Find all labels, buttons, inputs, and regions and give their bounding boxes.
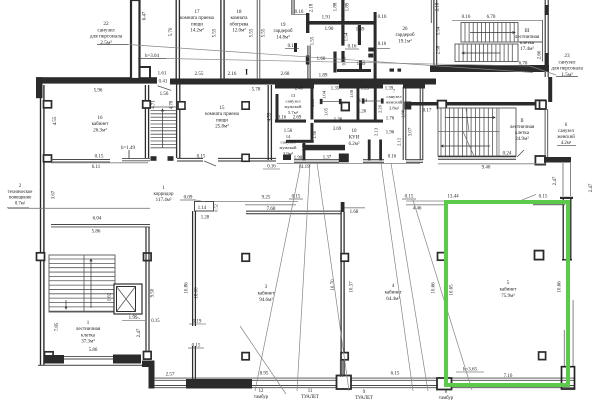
svg-text:0.15: 0.15 [95,155,104,160]
stairwell III right wall [545,0,548,77]
stairwell III right wall pier top [545,5,549,15]
wall cluster2 vertical x381 lower [379,140,382,161]
right wing wall below stairIII pier [548,77,552,102]
svg-text:техническое: техническое [8,190,33,195]
svg-text:помещение: помещение [9,196,32,201]
svg-text:3.8м²: 3.8м² [389,105,400,110]
dim 0.15 corridor b underline [402,198,416,200]
svg-text:6.70: 6.70 [519,62,528,67]
room5 right wall thin mid [564,300,573,367]
wall cluster2 vertical x375 stub [374,87,377,120]
svg-text:4.71: 4.71 [152,100,157,109]
svg-text:санузел: санузел [285,99,301,104]
wall outer bottom-left face line [38,364,152,366]
svg-text:5.7м²: 5.7м² [288,110,299,115]
svg-text:14: 14 [286,134,291,139]
room3 top step notch box [195,202,214,212]
column room3 row4 a [45,352,54,360]
door tick room15 top [158,86,172,91]
wall vertical left of room 26 [434,0,437,65]
svg-text:1.08: 1.08 [349,89,354,98]
door dumbbell room13 [321,101,341,103]
room 2 label underline [7,207,29,209]
wall mid band bottom room16 [51,160,110,162]
svg-text:1.96: 1.96 [386,131,395,136]
svg-text:0.7м²: 0.7м² [15,200,26,206]
wall cluster2 bottom y161 c [406,160,423,162]
svg-text:1.5м²: 1.5м² [561,72,573,78]
dim 0.09 underline [180,199,196,201]
stairs II arrow upper [445,116,495,118]
svg-text:4.46: 4.46 [413,207,422,212]
column room15 b [242,102,249,109]
right wing window band x563-570 upper [563,163,571,196]
svg-text:2.47: 2.47 [589,183,594,192]
svg-text:6.47: 6.47 [143,11,148,20]
leader to room 8 label b [391,163,428,391]
svg-text:2.5м²: 2.5м² [100,40,112,46]
svg-text:12: 12 [259,389,264,394]
left outer wall [41,85,44,366]
right wing wall x546 window band [545,109,548,157]
svg-text:клетка: клетка [520,41,535,46]
svg-text:h=1.49: h=1.49 [121,146,136,151]
svg-text:кабинет: кабинет [258,291,276,296]
svg-text:1.14: 1.14 [198,206,207,211]
svg-text:лестничная: лестничная [76,327,101,332]
svg-text:4.55: 4.55 [53,116,58,125]
bottom wall thick segment [186,379,252,389]
wall vertical between room 17 and 18 [176,0,179,79]
svg-text:5.55: 5.55 [213,28,218,37]
svg-text:комната приема: комната приема [180,16,214,21]
svg-text:санузел: санузел [559,59,576,65]
svg-text:11: 11 [308,389,313,394]
column room15 a [178,102,185,109]
door marker black square pair right of cluster 2 [398,69,402,72]
svg-text:1.24: 1.24 [359,99,368,104]
wall stairwell II top [405,102,546,106]
room 23 label underline [556,76,578,78]
svg-text:кабинет: кабинет [92,122,110,127]
elevator shaft [114,284,142,314]
wall cluster vertical x359 stub [358,25,361,45]
wall cluster2 horizontal y141 [286,140,314,143]
dim 0.24 underline [498,155,516,157]
wall cluster2 L vertical x312 lower [311,123,314,140]
svg-text:3.67: 3.67 [52,190,57,199]
stairwell I top line [51,225,150,227]
wall cluster2 top y84-87 mid [339,84,383,89]
svg-text:санузел: санузел [386,94,402,99]
dim line under green top [533,204,565,206]
wall top-left outer horizontal [36,77,157,83]
wall cluster2 vertical x357 [357,87,360,120]
svg-text:5.96: 5.96 [94,89,103,94]
wall room15 left [177,84,180,158]
svg-text:6.11: 6.11 [92,165,101,170]
wall vertical x432 top stub [431,0,433,23]
svg-text:22: 22 [103,21,109,27]
wall cluster2 vertical x369 lower [368,140,371,161]
svg-text:1.55: 1.55 [311,36,316,45]
svg-text:117.4м²: 117.4м² [156,197,172,203]
dim 1.95 underline [122,320,145,322]
svg-text:2.57: 2.57 [166,373,175,378]
svg-text:10.65: 10.65 [450,284,455,296]
wall cluster vertical x309 lower [308,46,310,79]
wall connector bottom x150 vertical [149,361,155,389]
svg-text:37.3м²: 37.3м² [81,339,95,345]
note h=3.65 underline [456,371,484,373]
stairs II arrow lower [441,145,490,147]
svg-text:мужской: мужской [279,145,297,150]
svg-text:7.85: 7.85 [55,322,60,331]
wall cluster2 left edge [276,94,279,122]
highlight room 5 green rectangle [446,202,568,385]
svg-text:1.76: 1.76 [386,117,395,122]
svg-text:1.05: 1.05 [324,107,329,116]
svg-text:14.8м²: 14.8м² [276,34,290,40]
svg-text:1.89: 1.89 [319,74,328,79]
svg-text:8.95: 8.95 [260,372,269,377]
column room15 bottom [242,154,249,161]
wall pier x283 bottom [283,155,291,161]
svg-text:5.55: 5.55 [250,28,255,37]
svg-text:1.26: 1.26 [358,110,367,115]
leader near stairwell I door [240,326,286,394]
wall cluster vertical x373 stub [374,12,377,79]
wall vertical between room 18 and 19 [257,0,260,79]
svg-text:гардероб: гардероб [395,33,414,38]
bottom wall block right [437,378,452,390]
svg-text:12.0м²: 12.0м² [232,28,246,34]
svg-text:2.69: 2.69 [293,116,302,121]
stairs II block [438,108,516,156]
column room3-4 row3 [341,254,348,262]
door tick stairwell II [517,150,524,157]
svg-text:1.91: 1.91 [322,16,331,21]
svg-text:1.98: 1.98 [401,109,406,118]
svg-text:2.18: 2.18 [436,2,441,11]
svg-text:18.00: 18.00 [195,287,200,299]
svg-text:6.70: 6.70 [487,15,496,20]
right wing wall horizontal y157 [544,157,571,163]
svg-text:мужской: мужской [284,104,302,109]
svg-text:8.17: 8.17 [423,109,432,114]
wall room3-4 divider [341,212,344,378]
column left wall row2 [44,155,52,162]
svg-text:5.86: 5.86 [92,230,101,235]
column stairwell II top-left [404,102,411,110]
wall stairwell I bottom pier left [44,355,64,364]
svg-text:корридор: корридор [154,192,174,197]
svg-text:лестничная: лестничная [510,125,535,130]
column right wing [540,101,547,110]
svg-text:0.15: 0.15 [197,155,206,160]
column stairwell II mid [438,101,447,109]
ladder arrow [161,109,163,148]
svg-text:женский: женский [385,100,403,105]
svg-text:0.16: 0.16 [295,10,304,15]
svg-text:1.89: 1.89 [356,28,365,33]
svg-text:19: 19 [281,23,287,28]
wall room19-20 divider top [292,0,294,14]
wall cluster2 horizontal y120 mid [314,120,350,123]
svg-text:2.12: 2.12 [397,137,402,146]
svg-text:4.2м²: 4.2м² [561,140,572,146]
stairwell I bottom window band [64,357,113,359]
svg-text:ТУАЛЕТ: ТУАЛЕТ [355,396,373,400]
svg-text:2.13: 2.13 [374,127,379,136]
svg-text:3.07: 3.07 [409,127,414,136]
column room16 right top [143,101,151,108]
leader from room 22 label to room 23 [128,45,533,73]
svg-text:1.36: 1.36 [334,118,343,123]
room5 right wall black upper [562,199,572,260]
stairwell I right wall [146,227,149,352]
column room5 row4 [539,352,546,360]
ladder stair between rooms 16 and 15 [151,107,177,148]
wall KUI horizontal y146 [303,145,345,151]
column room3 row3 a [37,253,45,261]
svg-text:2.26: 2.26 [378,104,383,113]
svg-text:2.60: 2.60 [538,50,543,59]
svg-text:0.16: 0.16 [378,42,387,47]
svg-text:1.37: 1.37 [323,156,332,161]
dim 0.19 underline [189,323,206,325]
wall stairwell II left x421 [420,84,423,161]
svg-text:1.89: 1.89 [357,62,366,67]
svg-text:1.56: 1.56 [284,129,293,134]
svg-text:2.16: 2.16 [228,72,237,77]
svg-text:1.39: 1.39 [385,87,394,92]
svg-text:ТУАЛЕТ: ТУАЛЕТ [301,395,319,400]
svg-text:4.55: 4.55 [268,112,273,121]
leader into room 23 area [530,66,556,75]
svg-text:16: 16 [98,116,104,121]
stairs III lower flight arrow [462,52,500,54]
dim 0.16 cluster a underline [291,14,306,16]
svg-text:1.60: 1.60 [317,57,326,62]
svg-text:тамбур: тамбур [439,396,454,400]
wall under green top right [533,203,565,205]
wall cluster horizontal bar y21-25 [309,21,375,25]
column room4 row3 right [438,253,446,261]
wall room3-4 divider stub [341,202,345,212]
room5 right wall black lower [562,367,575,389]
svg-text:75.9м²: 75.9м² [501,293,515,299]
column left wall row1 [44,101,52,108]
dim 0.15 underline room3 [188,347,204,349]
svg-text:0.16: 0.16 [388,155,397,160]
svg-text:гардероб: гардероб [273,29,292,34]
svg-text:94.6м²: 94.6м² [259,297,273,303]
door marker black square pair right of cluster [390,69,395,72]
leader to room 8 label a [381,163,413,391]
svg-text:17.4м²: 17.4м² [520,46,534,52]
wall connector bottom nub [142,361,154,368]
svg-text:0.16: 0.16 [462,15,471,20]
svg-text:санузел: санузел [280,140,296,145]
leader elevator [130,313,140,319]
dim line 1.68 [341,207,365,209]
column room3 row4 b [242,353,249,360]
svg-text:женский: женский [556,135,575,140]
svg-text:19.1м²: 19.1м² [398,38,412,44]
wall mid band bottom room15 left [177,158,203,161]
svg-text:2.55: 2.55 [195,72,204,77]
svg-text:1.56: 1.56 [160,92,169,97]
svg-text:1.89: 1.89 [346,2,351,11]
stairwell III dim line top [452,20,543,22]
svg-text:санузел: санузел [558,129,574,134]
svg-text:I: I [245,68,248,77]
svg-text:2.58: 2.58 [437,45,442,54]
svg-text:13: 13 [291,93,296,98]
svg-text:15: 15 [220,106,226,111]
svg-text:1.88: 1.88 [334,2,339,11]
door dumbbell room7 [363,100,383,102]
stairs I arrow up-flight [90,259,92,308]
wall cluster jamb x361 lower [359,60,362,69]
svg-text:3.69: 3.69 [333,127,342,132]
wall cluster horizontal bar y69-72 [337,69,371,72]
svg-text:пищи: пищи [191,22,203,27]
stairs III upper flight [461,21,543,62]
svg-text:0.15: 0.15 [151,319,160,324]
svg-text:КУИ: КУИ [349,136,360,141]
svg-text:2.49: 2.49 [295,87,304,92]
svg-text:5.55: 5.55 [262,28,267,37]
door tick room15 bottom [204,161,216,166]
column room5 row3 [535,251,544,260]
svg-text:10.86: 10.86 [185,282,190,294]
wall top-left end cap [36,77,43,98]
wall cluster vertical x343 upper [341,0,344,21]
right wing cap y198 [560,197,573,199]
leader short near room5 [413,200,472,390]
svg-text:2.25: 2.25 [310,98,315,107]
wall room3 top [246,211,341,214]
column room3 row3 c [242,254,249,262]
svg-text:тамбур: тамбур [254,395,269,400]
column stairwell II top-right [536,100,545,109]
black column KUI [339,154,349,163]
wall cluster vertical x343 mid [341,25,344,46]
svg-text:3.9м²: 3.9м² [283,151,294,156]
svg-text:13.44: 13.44 [447,195,459,200]
column stairwell II bottom-right [535,156,545,165]
dim 0.16 cluster c underline [285,48,299,50]
svg-text:для персонала: для персонала [551,66,583,72]
svg-text:18: 18 [237,10,243,15]
wall room16 right [145,85,148,158]
wall cluster vertical x343 y51-62 [341,51,344,62]
wall connector x341 above bottom [340,360,342,377]
wall cluster2 horizontal y120 right [350,120,383,123]
ladder bottom jamb right [168,156,174,161]
wall cluster2 horizontal y120 left [275,120,306,123]
wall cluster2 top y84-87 right [403,84,425,89]
dim line 9.25 [197,201,298,203]
svg-text:7.16: 7.16 [504,374,513,379]
svg-text:26.3м²: 26.3м² [93,127,107,133]
wall vertical between room 18 and 18a [221,0,224,79]
wall stairwell I bottom pier right [113,355,141,364]
svg-text:лестничная: лестничная [515,35,540,40]
svg-text:25.8м²: 25.8м² [215,124,229,130]
svg-text:клетка: клетка [81,333,96,338]
bottom wall block mid [337,376,352,390]
svg-text:1.71: 1.71 [301,142,306,151]
svg-text:6.15: 6.15 [391,372,400,377]
wall jamb stub x368 b [368,54,373,58]
dim line 14.19 [277,163,420,165]
svg-text:0.15: 0.15 [539,195,548,200]
note h=3.04 underline and leader [138,58,166,60]
stairs I arrow small down [65,300,67,309]
wall stairwell III bottom thick y65-72 [430,65,549,72]
leader 0.15 corridor c [522,195,536,201]
dim line 4.46 [406,204,445,206]
stairs III upper flight arrow [470,31,515,33]
svg-text:1.54: 1.54 [345,32,350,41]
svg-text:1.04: 1.04 [322,90,327,99]
dim line 6.11 [51,162,148,164]
door dumbbell room7 jambs [362,98,365,103]
wall cluster2 vertical x304 lower [303,143,306,161]
svg-text:1.35: 1.35 [331,87,340,92]
svg-text:обогрева: обогрева [230,22,250,27]
wall room3 left lower [193,346,196,379]
svg-text:4.70: 4.70 [170,100,175,109]
wall room15-13 divider [268,85,271,160]
dim line 13.44 [406,200,446,202]
svg-text:0.41: 0.41 [159,80,168,85]
svg-text:1.90: 1.90 [294,156,303,161]
svg-text:5.86: 5.86 [89,348,98,353]
svg-text:10.66: 10.66 [558,281,563,293]
svg-text:комната: комната [231,16,249,21]
svg-text:1.90: 1.90 [325,27,334,32]
wall cluster jamb x306 lower [306,56,309,65]
wall stairwell II bottom [438,157,516,160]
dim line 7.68 [245,204,296,206]
svg-text:1.25: 1.25 [361,87,370,92]
svg-text:1.68: 1.68 [350,210,359,215]
svg-text:9.25: 9.25 [262,196,271,201]
wall cluster2 bottom y161 a [294,160,339,162]
svg-text:0.16: 0.16 [278,116,287,121]
svg-text:санузел: санузел [97,27,115,33]
dim line left section y208 [8,207,150,209]
leader 0.09 to notch [193,200,206,203]
wall horizontal top band bottom x170-436 [170,79,436,85]
svg-text:23: 23 [564,53,570,59]
ledge h=1.49 [122,150,150,161]
wall mid band bottom room15 right [218,158,276,161]
wall notch right of room 22 [140,67,150,79]
bottom wall thin lines lower [154,386,575,388]
svg-text:10.37: 10.37 [350,281,355,293]
bottom wall thin lines [154,378,575,380]
column stairwell I row4 right [144,352,152,360]
dim 0.15 corridor a underline [289,198,303,200]
svg-text:2.18: 2.18 [310,3,315,12]
svg-text:III: III [525,29,530,34]
svg-text:9.40: 9.40 [482,166,491,171]
